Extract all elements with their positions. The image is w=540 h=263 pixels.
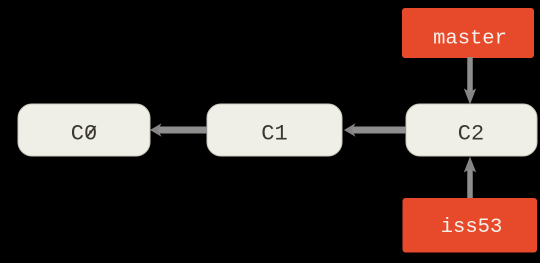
svg-text:master: master <box>433 28 507 51</box>
svg-text:C1: C1 <box>261 122 287 147</box>
svg-text:iss53: iss53 <box>441 216 503 239</box>
svg-text:C2: C2 <box>458 122 484 147</box>
svg-text:C0: C0 <box>71 122 97 147</box>
